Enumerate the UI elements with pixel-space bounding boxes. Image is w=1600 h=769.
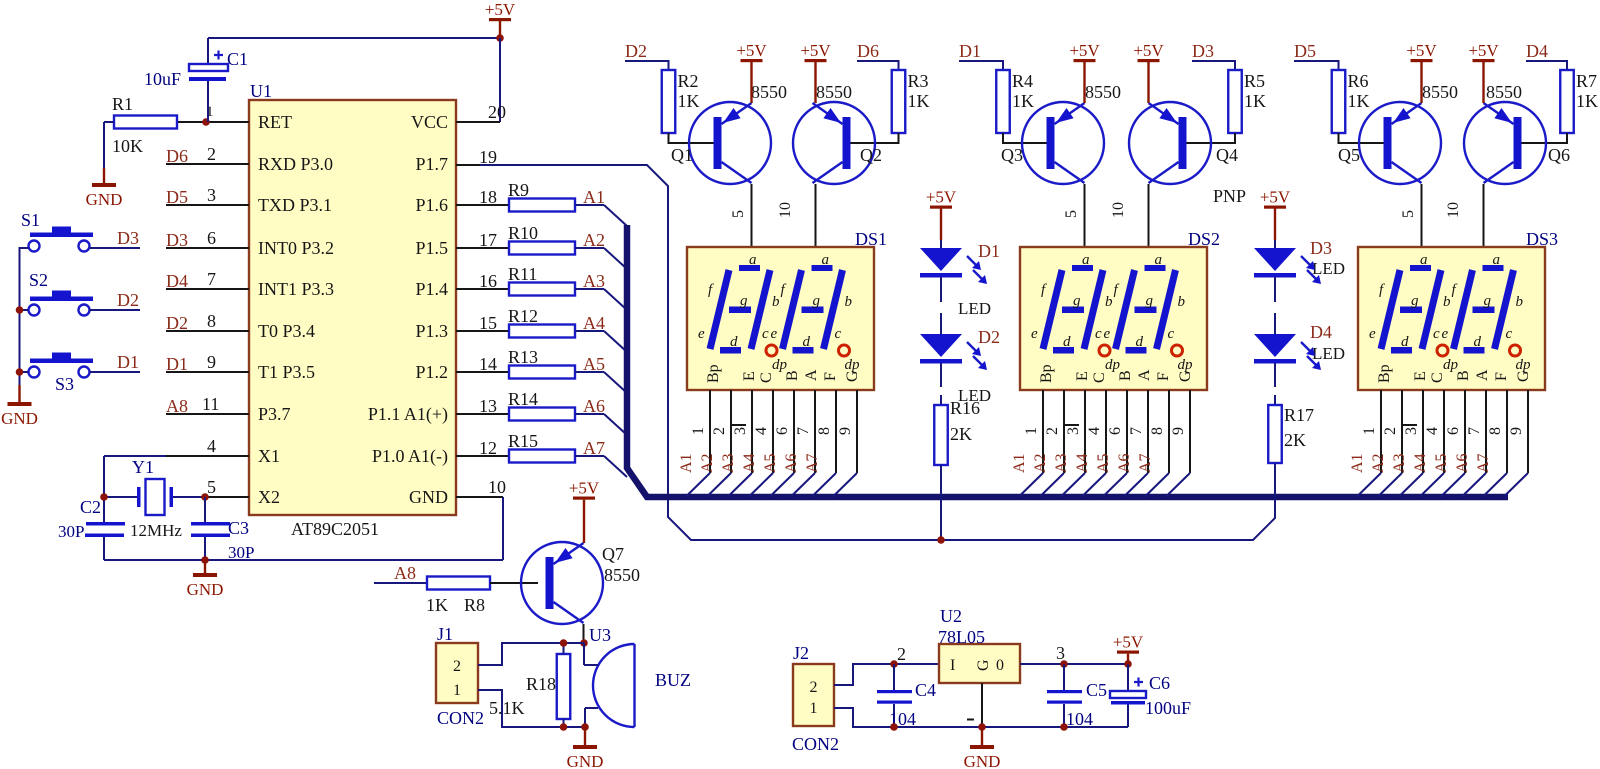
wire R17 to P1.7 net xyxy=(1274,463,1276,518)
svg-text:D2: D2 xyxy=(117,290,139,310)
svg-text:D6: D6 xyxy=(166,146,188,166)
svg-text:S2: S2 xyxy=(29,270,48,290)
resistor R16 xyxy=(934,405,948,465)
svg-text:A5: A5 xyxy=(1095,453,1112,473)
svg-text:RXD P3.0: RXD P3.0 xyxy=(258,154,333,174)
svg-text:9: 9 xyxy=(207,352,216,372)
wire R10 to bus / net A2 xyxy=(575,247,604,249)
wire R5 to Q4 base xyxy=(1182,133,1236,143)
svg-text:d: d xyxy=(1474,334,1482,350)
svg-text:C3: C3 xyxy=(228,518,249,538)
svg-text:G: G xyxy=(1177,370,1194,382)
svg-text:A6: A6 xyxy=(1116,453,1133,473)
wire +5V to C6 xyxy=(1127,654,1129,664)
svg-text:U2: U2 xyxy=(940,606,962,626)
svg-text:A1: A1 xyxy=(583,187,605,207)
resistor R12 xyxy=(509,325,575,338)
svg-text:e: e xyxy=(771,326,778,342)
svg-text:17: 17 xyxy=(479,230,497,250)
display DS3 xyxy=(1358,247,1545,390)
svg-text:C5: C5 xyxy=(1086,680,1107,700)
svg-text:8550: 8550 xyxy=(604,565,640,585)
svg-text:c: c xyxy=(762,326,769,342)
svg-text:GND: GND xyxy=(187,580,224,599)
svg-text:4: 4 xyxy=(1086,427,1103,435)
wire R9 to bus / net A1 xyxy=(575,204,604,206)
svg-text:+5V: +5V xyxy=(736,41,767,60)
wire Q2 collector to DS1 pin 10 xyxy=(815,184,817,247)
junction dot R18 bottom xyxy=(560,723,568,731)
svg-text:INT0 P3.2: INT0 P3.2 xyxy=(258,238,334,258)
svg-text:10K: 10K xyxy=(112,136,143,156)
svg-text:g: g xyxy=(740,293,748,309)
svg-text:R14: R14 xyxy=(508,389,538,409)
svg-text:1: 1 xyxy=(690,427,707,435)
svg-text:2: 2 xyxy=(897,644,906,664)
ground crystal xyxy=(204,560,206,573)
connector J1 xyxy=(436,643,478,703)
ground under R1 xyxy=(103,168,105,183)
wire J2 pin1 ground rail xyxy=(834,708,1128,727)
svg-text:A7: A7 xyxy=(1475,453,1492,473)
junction dot C4 top xyxy=(890,660,898,668)
svg-text:X2: X2 xyxy=(258,487,280,507)
svg-text:R8: R8 xyxy=(464,595,485,615)
svg-text:5: 5 xyxy=(730,210,747,218)
U1 pin 3 lead / net D5 xyxy=(166,204,249,206)
svg-text:P1.7: P1.7 xyxy=(415,154,448,174)
svg-text:1: 1 xyxy=(810,700,818,717)
svg-text:A3: A3 xyxy=(583,271,605,291)
svg-text:R5: R5 xyxy=(1244,71,1265,91)
svg-text:g: g xyxy=(1411,293,1419,309)
svg-text:D2: D2 xyxy=(625,41,647,61)
wire R7 to Q6 base xyxy=(1514,133,1568,143)
svg-text:S3: S3 xyxy=(55,374,74,394)
wire +5V to Q3 emitter xyxy=(1083,62,1085,103)
wire R8 to Q7 base xyxy=(490,582,522,584)
svg-text:Q6: Q6 xyxy=(1548,145,1570,165)
svg-text:e: e xyxy=(698,326,705,342)
svg-text:D5: D5 xyxy=(166,187,188,207)
svg-text:A7: A7 xyxy=(804,453,821,473)
svg-text:10: 10 xyxy=(1445,202,1462,218)
svg-text:J2: J2 xyxy=(793,643,809,663)
wire +5V to D1 xyxy=(940,209,942,241)
wire Q4 collector to DS2 pin 10 xyxy=(1148,184,1150,247)
transistor Q1 xyxy=(689,102,771,184)
svg-text:2: 2 xyxy=(1044,427,1061,435)
junction dot S3 xyxy=(16,368,24,376)
U1 pin 15 lead xyxy=(456,330,509,332)
svg-text:13: 13 xyxy=(479,396,497,416)
bus A1-A7 xyxy=(627,225,1508,497)
resistor R13 xyxy=(509,366,575,379)
svg-text:18: 18 xyxy=(479,187,497,207)
capacitor C6 xyxy=(1127,664,1129,691)
wire +5V to VCC xyxy=(499,38,501,122)
resistor R9 xyxy=(509,199,575,212)
svg-text:2K: 2K xyxy=(1284,430,1306,450)
wire Q6 collector to DS3 pin 10 xyxy=(1483,184,1485,247)
node X1 junction dot xyxy=(100,493,108,501)
svg-text:A3: A3 xyxy=(720,453,737,473)
wire +5V to Q1 emitter xyxy=(750,62,752,103)
display DS3 pins xyxy=(1380,390,1382,473)
svg-text:DS2: DS2 xyxy=(1188,229,1220,249)
wire R14 to bus / net A6 xyxy=(575,413,604,415)
svg-text:d: d xyxy=(1136,334,1144,350)
svg-text:+5V: +5V xyxy=(569,479,600,498)
svg-text:Q3: Q3 xyxy=(1001,145,1023,165)
svg-text:LED: LED xyxy=(1312,259,1345,278)
svg-text:PNP: PNP xyxy=(1213,186,1246,206)
svg-text:7: 7 xyxy=(1128,427,1145,435)
svg-text:D3: D3 xyxy=(1310,238,1332,258)
wire +5V to Q2 emitter xyxy=(814,62,816,103)
svg-text:GND: GND xyxy=(86,190,123,209)
svg-text:VCC: VCC xyxy=(411,112,448,132)
svg-text:R11: R11 xyxy=(508,264,537,284)
svg-text:104: 104 xyxy=(1066,709,1093,729)
svg-text:+5V: +5V xyxy=(800,41,831,60)
svg-text:8550: 8550 xyxy=(1085,82,1121,102)
svg-text:GND: GND xyxy=(1,409,38,428)
svg-text:1K: 1K xyxy=(678,91,700,111)
LED D1 xyxy=(920,248,962,271)
svg-text:1K: 1K xyxy=(426,595,448,615)
svg-text:+5V: +5V xyxy=(926,188,957,207)
svg-text:P3.7: P3.7 xyxy=(258,404,291,424)
svg-text:6: 6 xyxy=(774,427,791,435)
svg-text:A4: A4 xyxy=(583,313,605,333)
svg-text:E: E xyxy=(1074,371,1091,381)
svg-text:16: 16 xyxy=(479,271,497,291)
svg-text:R16: R16 xyxy=(950,398,980,418)
svg-text:11: 11 xyxy=(202,394,219,414)
svg-text:+5V: +5V xyxy=(485,0,516,19)
junction dot +5V out xyxy=(1124,660,1132,668)
svg-text:A6: A6 xyxy=(1454,453,1471,473)
svg-text:c: c xyxy=(1433,326,1440,342)
wire +5V to Q6 emitter xyxy=(1482,62,1484,103)
svg-text:B: B xyxy=(1117,370,1134,381)
wire +5V to D3 xyxy=(1274,209,1276,241)
svg-text:R4: R4 xyxy=(1012,71,1033,91)
pin 1 lead RET xyxy=(177,121,249,123)
svg-text:C6: C6 xyxy=(1149,673,1170,693)
svg-text:a: a xyxy=(1082,252,1090,268)
ground buzzer xyxy=(584,727,586,745)
wire X1 to crystal xyxy=(104,455,166,457)
node X2 junction dot xyxy=(201,493,209,501)
U1 pin 10 GND lead xyxy=(456,496,503,498)
ground U2 xyxy=(981,727,983,745)
svg-text:2: 2 xyxy=(1382,427,1399,435)
svg-text:30P: 30P xyxy=(58,522,84,541)
svg-text:Q4: Q4 xyxy=(1216,145,1238,165)
svg-text:TXD P3.1: TXD P3.1 xyxy=(258,195,332,215)
svg-text:A8: A8 xyxy=(394,563,416,583)
svg-text:B: B xyxy=(1455,370,1472,381)
svg-text:G: G xyxy=(844,370,861,382)
display DS2 pins xyxy=(1042,390,1044,473)
svg-text:c: c xyxy=(1506,326,1513,342)
wire +5V to Q5 emitter xyxy=(1420,62,1422,103)
svg-text:8: 8 xyxy=(816,427,833,435)
wire D3 to D4 xyxy=(1274,277,1276,302)
svg-text:I: I xyxy=(950,657,955,674)
wire +5V to Q7 emitter xyxy=(583,500,585,543)
junction dot U2 gnd xyxy=(978,723,986,731)
svg-text:Q5: Q5 xyxy=(1338,145,1360,165)
svg-text:R17: R17 xyxy=(1284,405,1314,425)
wire D1 to D2 xyxy=(940,277,942,302)
svg-text:D1: D1 xyxy=(978,241,1000,261)
svg-text:e: e xyxy=(1104,326,1111,342)
svg-text:+5V: +5V xyxy=(1468,41,1499,60)
LED D4 xyxy=(1254,334,1296,357)
svg-text:6: 6 xyxy=(207,228,216,248)
svg-text:P1.4: P1.4 xyxy=(415,279,448,299)
svg-text:a: a xyxy=(822,252,830,268)
resistor R1 xyxy=(114,116,177,129)
svg-text:A4: A4 xyxy=(1074,453,1091,473)
svg-text:G: G xyxy=(975,659,992,671)
svg-text:G: G xyxy=(1515,370,1532,382)
resistor R8 xyxy=(427,577,490,590)
U1 pin 8 lead / net D2 xyxy=(166,330,249,332)
svg-text:R10: R10 xyxy=(508,223,538,243)
svg-text:U1: U1 xyxy=(250,81,272,101)
svg-text:F: F xyxy=(1155,372,1172,381)
svg-text:c: c xyxy=(1168,326,1175,342)
svg-text:Q1: Q1 xyxy=(671,145,693,165)
transistor Q2 xyxy=(793,102,875,184)
svg-text:P1.3: P1.3 xyxy=(415,321,448,341)
wire J1 pin2 to R18/Q7 xyxy=(478,643,584,665)
svg-text:e: e xyxy=(1031,326,1038,342)
svg-text:D1: D1 xyxy=(166,354,188,374)
svg-text:J1: J1 xyxy=(437,624,453,644)
svg-text:CON2: CON2 xyxy=(437,708,484,728)
svg-text:3: 3 xyxy=(1403,427,1420,435)
svg-text:b: b xyxy=(1443,294,1451,310)
svg-text:S1: S1 xyxy=(21,210,40,230)
svg-text:b: b xyxy=(1516,294,1524,310)
svg-text:Bp: Bp xyxy=(1038,364,1055,383)
svg-text:+5V: +5V xyxy=(1113,633,1144,652)
svg-text:4: 4 xyxy=(207,436,216,456)
wire R12 to bus / net A4 xyxy=(575,330,604,332)
svg-text:5.1K: 5.1K xyxy=(489,698,525,718)
svg-text:Bp: Bp xyxy=(705,364,722,383)
svg-text:0: 0 xyxy=(996,657,1004,674)
svg-text:5: 5 xyxy=(1400,210,1417,218)
svg-text:GND: GND xyxy=(964,752,1001,769)
svg-text:g: g xyxy=(1484,293,1492,309)
svg-text:A: A xyxy=(1136,369,1153,381)
wire R6 to Q5 base xyxy=(1339,133,1392,143)
display DS1 xyxy=(687,247,874,390)
svg-text:b: b xyxy=(772,294,780,310)
svg-text:9: 9 xyxy=(1508,427,1525,435)
svg-text:BUZ: BUZ xyxy=(655,670,691,690)
wire P1.7 to LED resistors xyxy=(480,165,1275,540)
svg-text:T1 P3.5: T1 P3.5 xyxy=(258,362,315,382)
wire S3 to D1 xyxy=(90,371,141,373)
svg-text:P1.1 A1(+): P1.1 A1(+) xyxy=(368,404,448,425)
svg-text:1K: 1K xyxy=(1576,91,1598,111)
svg-text:d: d xyxy=(1401,334,1409,350)
svg-text:7: 7 xyxy=(207,269,216,289)
svg-text:2K: 2K xyxy=(950,424,972,444)
svg-text:A2: A2 xyxy=(583,230,605,250)
svg-text:R7: R7 xyxy=(1576,71,1597,91)
svg-text:C: C xyxy=(1091,372,1108,383)
svg-text:A1: A1 xyxy=(1349,453,1366,473)
U1 pin 2 lead / net D6 xyxy=(166,163,249,165)
svg-text:D3: D3 xyxy=(1192,41,1214,61)
wire Q5 collector to DS3 pin 5 xyxy=(1421,184,1423,247)
transistor Q5 xyxy=(1359,102,1441,184)
display DS1 pins xyxy=(709,390,711,473)
svg-text:D2: D2 xyxy=(166,313,188,333)
svg-text:E: E xyxy=(1412,371,1429,381)
svg-text:A4: A4 xyxy=(741,453,758,473)
U1 pin 11 lead / net A8 xyxy=(166,413,249,415)
wire R2 to Q1 base xyxy=(669,133,722,143)
svg-text:d: d xyxy=(730,334,738,350)
resistor R15 xyxy=(509,450,575,463)
svg-text:5: 5 xyxy=(1063,210,1080,218)
junction dot C5 bottom xyxy=(1060,723,1068,731)
svg-text:+5V: +5V xyxy=(1133,41,1164,60)
svg-text:5: 5 xyxy=(207,477,216,497)
svg-text:8550: 8550 xyxy=(1486,82,1522,102)
svg-text:d: d xyxy=(803,334,811,350)
svg-text:A4: A4 xyxy=(1412,453,1429,473)
svg-text:D4: D4 xyxy=(1310,322,1332,342)
svg-text:78L05: 78L05 xyxy=(938,627,985,647)
wire D2 to R16 xyxy=(940,363,942,387)
svg-text:A: A xyxy=(1474,369,1491,381)
svg-text:R2: R2 xyxy=(678,71,699,91)
svg-text:A5: A5 xyxy=(1433,453,1450,473)
LED D2 xyxy=(920,334,962,357)
svg-text:3: 3 xyxy=(1056,643,1065,663)
svg-text:2: 2 xyxy=(207,144,216,164)
svg-text:LED: LED xyxy=(1312,344,1345,363)
svg-text:C2: C2 xyxy=(80,497,101,517)
svg-text:C1: C1 xyxy=(227,49,248,69)
wire crystal ground rail xyxy=(104,559,503,561)
svg-text:d: d xyxy=(1063,334,1071,350)
svg-text:a: a xyxy=(1493,252,1501,268)
resistor R14 xyxy=(509,408,575,421)
svg-text:DS3: DS3 xyxy=(1526,229,1558,249)
U1 pin 20 VCC lead xyxy=(456,121,500,123)
svg-text:U3: U3 xyxy=(589,625,611,645)
svg-text:A5: A5 xyxy=(762,453,779,473)
svg-text:R13: R13 xyxy=(508,347,538,367)
wire +5V to Q4 emitter xyxy=(1147,62,1149,103)
transistor Q4 xyxy=(1129,102,1211,184)
svg-text:3: 3 xyxy=(732,427,749,435)
junction dot S2 xyxy=(16,306,24,314)
svg-text:e: e xyxy=(1442,326,1449,342)
svg-text:A3: A3 xyxy=(1053,453,1070,473)
svg-text:1K: 1K xyxy=(1012,91,1034,111)
svg-text:A5: A5 xyxy=(583,354,605,374)
svg-text:AT89C2051: AT89C2051 xyxy=(291,519,379,539)
transistor Q3 xyxy=(1022,102,1104,184)
junction dot C4 bottom xyxy=(890,723,898,731)
svg-text:3: 3 xyxy=(1065,427,1082,435)
svg-text:8: 8 xyxy=(1487,427,1504,435)
svg-text:D3: D3 xyxy=(166,230,188,250)
svg-text:A7: A7 xyxy=(1137,453,1154,473)
svg-text:14: 14 xyxy=(479,354,497,374)
junction dot C5 top xyxy=(1060,660,1068,668)
svg-text:g: g xyxy=(813,293,821,309)
svg-text:9: 9 xyxy=(1170,427,1187,435)
svg-text:b: b xyxy=(845,294,853,310)
svg-text:9: 9 xyxy=(837,427,854,435)
junction dot Q7 collector xyxy=(580,639,588,647)
junction dot R18 top xyxy=(560,639,568,647)
svg-text:7: 7 xyxy=(795,427,812,435)
svg-text:F: F xyxy=(1493,372,1510,381)
wire J1 pin1 to ground rail xyxy=(478,690,585,727)
junction dot R16 xyxy=(937,536,945,544)
svg-text:1K: 1K xyxy=(1244,91,1266,111)
svg-text:P1.5: P1.5 xyxy=(415,238,448,258)
node RET junction dot xyxy=(202,118,210,126)
svg-text:b: b xyxy=(1178,294,1186,310)
svg-text:A7: A7 xyxy=(583,438,605,458)
svg-text:+5V: +5V xyxy=(1406,41,1437,60)
svg-text:D6: D6 xyxy=(857,41,879,61)
U1 pin 7 lead / net D4 xyxy=(166,288,249,290)
wire R13 to bus / net A5 xyxy=(575,371,604,373)
svg-text:1K: 1K xyxy=(1348,91,1370,111)
wire buttons common xyxy=(20,248,29,385)
svg-text:GND: GND xyxy=(567,752,604,769)
svg-text:LED: LED xyxy=(958,299,991,318)
capacitor C4 xyxy=(893,664,895,690)
svg-text:7: 7 xyxy=(1466,427,1483,435)
svg-text:b: b xyxy=(1105,294,1113,310)
wire Q3 collector to DS2 pin 5 xyxy=(1084,184,1086,247)
wire S1 to D3 xyxy=(90,247,141,249)
resistor R11 xyxy=(509,283,575,296)
svg-text:4: 4 xyxy=(1424,427,1441,435)
svg-text:P1.6: P1.6 xyxy=(415,195,448,215)
svg-text:E: E xyxy=(741,371,758,381)
svg-text:a: a xyxy=(1420,252,1428,268)
U1 pin 14 lead xyxy=(456,371,509,373)
svg-text:INT1 P3.3: INT1 P3.3 xyxy=(258,279,334,299)
svg-text:10: 10 xyxy=(1110,202,1127,218)
svg-text:R18: R18 xyxy=(526,674,556,694)
LED D3 xyxy=(1254,248,1296,271)
svg-text:D3: D3 xyxy=(117,228,139,248)
svg-text:c: c xyxy=(835,326,842,342)
resistor R10 xyxy=(509,242,575,255)
svg-text:D4: D4 xyxy=(166,271,188,291)
display DS2 xyxy=(1020,247,1207,390)
